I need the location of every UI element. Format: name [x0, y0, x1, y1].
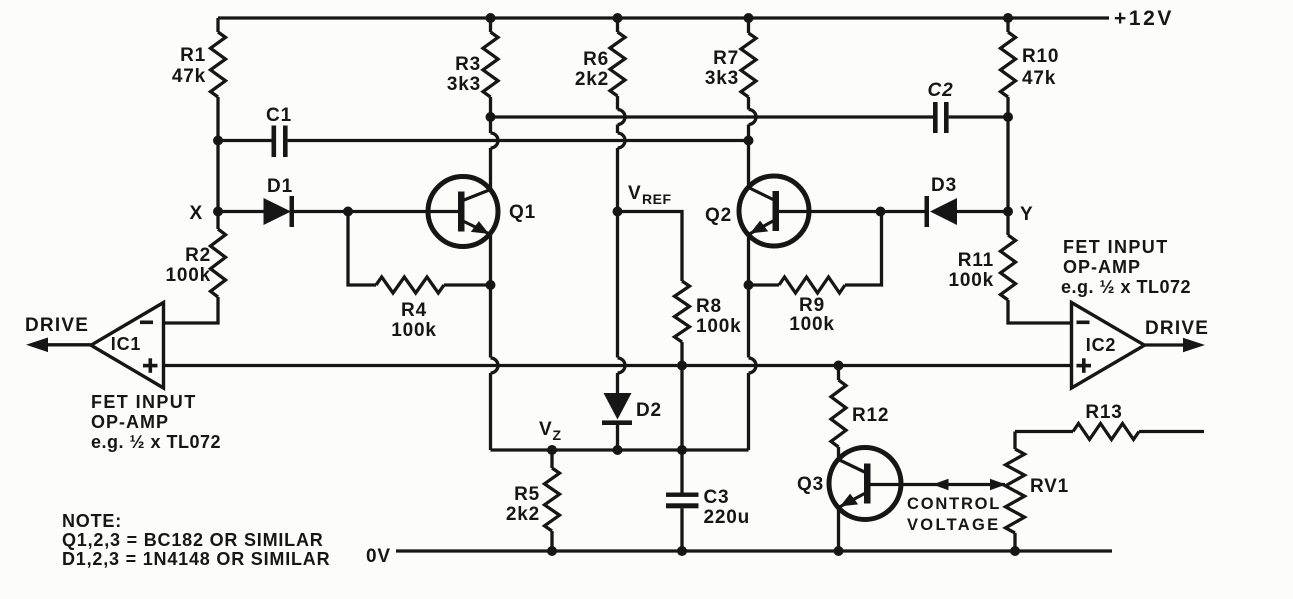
svg-text:2k2: 2k2 [506, 504, 540, 525]
wire 0V line [396, 549, 1112, 552]
wire Q1 emitter down [489, 285, 492, 358]
wire +12V top rail [218, 16, 1109, 19]
svg-text:220u: 220u [704, 507, 751, 528]
wire C2 to R10 column [949, 115, 1008, 118]
transistor Q2 circle [739, 176, 809, 246]
svg-text:Z: Z [553, 427, 562, 443]
svg-text:e.g. ½ x TL072: e.g. ½ x TL072 [91, 432, 221, 452]
svg-text:+12V: +12V [1114, 7, 1174, 30]
wire Q3 emitter to 0V [837, 508, 840, 552]
svg-text:R13: R13 [1085, 402, 1122, 423]
svg-text:e.g. ½ x TL072: e.g. ½ x TL072 [1061, 277, 1191, 297]
svg-text:RV1: RV1 [1030, 476, 1069, 497]
svg-text:R9: R9 [799, 295, 825, 316]
capacitor C3 [666, 493, 699, 497]
node 0V Q3 emitter [834, 546, 844, 556]
svg-text:DRIVE: DRIVE [1145, 318, 1209, 339]
node top rail / R7 [744, 13, 754, 23]
wire hop over C1 line [618, 133, 626, 148]
wire to C1 line node [747, 125, 750, 188]
IC2 plus symbol [1077, 364, 1092, 368]
resistor R8 [675, 281, 690, 342]
wire hop to Q1 collector [489, 148, 492, 190]
op-amp IC1 [91, 303, 164, 389]
resistor R4 [348, 212, 376, 286]
svg-text:IC2: IC2 [1086, 335, 1116, 355]
svg-text:100k: 100k [789, 314, 834, 335]
wire Q2 base [779, 210, 925, 213]
resistor R5 [550, 450, 553, 468]
node Vz R5 [547, 445, 557, 455]
svg-text:R10: R10 [1022, 46, 1059, 67]
IC1 plus symbol [143, 364, 158, 368]
resistor R6 [616, 18, 619, 32]
node Vz D2 [613, 445, 623, 455]
transistor Q1 emitter [464, 222, 491, 235]
node C1 tee [213, 136, 223, 146]
node R4 at Q1 emitter column [486, 280, 496, 290]
wire Q2 emitter down [747, 285, 750, 358]
node top rail / R10 [1003, 13, 1013, 23]
svg-text:Q1: Q1 [509, 202, 536, 223]
svg-text:CONTROL: CONTROL [907, 495, 1001, 513]
wire C3 top lead [680, 450, 683, 493]
svg-text:Q2: Q2 [705, 205, 732, 226]
svg-text:R1: R1 [180, 45, 206, 66]
wire Vref to R8 [618, 212, 683, 282]
svg-text:R3: R3 [455, 54, 481, 75]
transistor Q2 emitter [749, 221, 774, 235]
svg-text:100k: 100k [696, 316, 741, 337]
node Y [1003, 207, 1013, 217]
svg-text:C1: C1 [266, 105, 292, 126]
resistor R7 [747, 18, 750, 33]
svg-text:R4: R4 [401, 300, 427, 321]
wire R8 node to Vz rail [680, 366, 683, 451]
svg-text:R8: R8 [696, 296, 722, 317]
wire Vref down to hop [616, 212, 619, 358]
svg-text:OP-AMP: OP-AMP [91, 412, 169, 432]
svg-text:X: X [190, 203, 203, 224]
node R9 at Q2 emitter column [744, 280, 754, 290]
transistor Q1 base bar [458, 192, 465, 232]
wire Q3 base to RV1 wiper [870, 483, 1005, 486]
transistor Q1 collector [464, 190, 491, 201]
wire Q1 emitter to R4 node [489, 234, 492, 285]
svg-text:R12: R12 [852, 405, 889, 426]
svg-text:OP-AMP: OP-AMP [1063, 257, 1141, 277]
svg-text:R2: R2 [185, 245, 211, 266]
node 0V R5 [547, 546, 557, 556]
svg-text:V: V [628, 183, 641, 204]
node D1 base junction [343, 207, 353, 217]
node X [213, 207, 223, 217]
wire Vz rail [491, 448, 749, 451]
wire D1 to Q1 base [294, 210, 459, 213]
potentiometer RV1 [1013, 432, 1016, 450]
wire X to C1 [218, 139, 272, 142]
resistor R13 [1015, 430, 1073, 433]
node R8 at plus line [677, 361, 687, 371]
svg-text:V: V [539, 419, 552, 440]
svg-text:47k: 47k [172, 66, 206, 87]
svg-text:FET INPUT: FET INPUT [91, 392, 197, 412]
capacitor C1 [272, 126, 277, 158]
node 0V C3 [677, 546, 687, 556]
svg-text:Q3: Q3 [797, 474, 824, 495]
svg-text:D2: D2 [636, 400, 662, 421]
transistor Q2 base bar [773, 191, 780, 231]
wire D3 to Y [957, 210, 1008, 213]
svg-text:VOLTAGE: VOLTAGE [907, 516, 1000, 534]
wire C3 bottom lead [680, 508, 683, 551]
node C1 line at R7 column [744, 136, 754, 146]
resistor R11 [1006, 212, 1009, 236]
resistor R1 [216, 18, 219, 32]
svg-text:R5: R5 [514, 484, 540, 505]
transistor Q2 collector [749, 188, 774, 200]
svg-text:3k3: 3k3 [447, 74, 481, 95]
transistor Q3 emitter [839, 494, 865, 508]
wire plus line IC1 to IC2 [164, 364, 1072, 367]
capacitor C2 [933, 102, 938, 133]
svg-text:3k3: 3k3 [705, 68, 739, 89]
svg-text:47k: 47k [1022, 68, 1056, 89]
wire R3 bottom to C2 [491, 115, 934, 118]
wire to Vz rail [489, 373, 492, 450]
wire to Vref node [616, 148, 619, 212]
svg-text:IC1: IC1 [111, 334, 141, 354]
wire R3 column to hop [489, 111, 492, 134]
node R3 bottom line1 [486, 112, 496, 122]
transistor Q3 collector [839, 460, 865, 473]
svg-text:100k: 100k [166, 265, 211, 286]
transistor Q1 circle [428, 177, 498, 247]
svg-text:100k: 100k [949, 270, 994, 291]
transistor Q3 base bar [864, 464, 871, 504]
svg-text:R11: R11 [958, 250, 994, 271]
svg-text:2k2: 2k2 [575, 69, 609, 90]
svg-text:D1,2,3 = 1N4148 OR SIMILAR: D1,2,3 = 1N4148 OR SIMILAR [62, 549, 330, 569]
node R12 at plus line [834, 361, 844, 371]
wire D2 to Vz rail [616, 425, 619, 450]
svg-text:DRIVE: DRIVE [25, 315, 89, 336]
resistor R3 [489, 18, 492, 32]
node Q2 base R9 junction [876, 207, 886, 217]
wire to Vz rail corner [747, 373, 750, 450]
diode D1 [264, 198, 292, 225]
wire hop over line1 [618, 110, 626, 125]
wire hop over plus line [491, 358, 499, 373]
node top rail / R3 [486, 13, 496, 23]
node VREF [613, 207, 623, 217]
svg-text:REF: REF [642, 191, 672, 207]
wire Q2 emitter to R9 node [747, 234, 750, 285]
svg-text:R7: R7 [713, 48, 739, 69]
IC1 output arrow DRIVE [45, 343, 91, 346]
svg-text:100k: 100k [391, 320, 436, 341]
node 0V RV1 [1010, 546, 1020, 556]
svg-text:C3: C3 [704, 487, 730, 508]
diode D3 [925, 196, 930, 227]
wire to D2 [616, 373, 619, 393]
wire hop over plus line [618, 358, 626, 373]
diode D2 [604, 393, 632, 420]
wire X to D1 [218, 210, 264, 213]
IC2 minus symbol [1077, 321, 1090, 325]
IC1 minus symbol [140, 321, 153, 325]
resistor R10 [1006, 18, 1009, 32]
wire hop over C1 line [491, 133, 499, 148]
svg-text:FET INPUT: FET INPUT [1063, 237, 1169, 257]
svg-text:C2: C2 [928, 80, 954, 101]
svg-text:D3: D3 [931, 175, 957, 196]
svg-text:D1: D1 [267, 176, 293, 197]
wire hop over plus line [749, 358, 757, 373]
op-amp IC2 [1072, 303, 1145, 389]
resistor R12 [837, 366, 840, 381]
resistor R9 [749, 283, 780, 286]
svg-text:NOTE:: NOTE: [62, 511, 122, 531]
wiper double arrow [933, 479, 949, 490]
node C2 line at R10 column [1003, 112, 1013, 122]
svg-text:0V: 0V [366, 546, 391, 567]
wire C1 to Q2 collector column [288, 139, 749, 142]
svg-text:R6: R6 [583, 49, 609, 70]
svg-text:Y: Y [1020, 204, 1033, 225]
node top rail / R6 [613, 13, 623, 23]
svg-text:Q1,2,3 = BC182 OR SIMILAR: Q1,2,3 = BC182 OR SIMILAR [62, 530, 324, 550]
wire hop over line1 [749, 110, 757, 125]
wire between hops [616, 125, 619, 134]
resistor R2 [216, 212, 219, 230]
IC2 output arrow DRIVE [1145, 343, 1187, 346]
node Vz C3 [677, 445, 687, 455]
transistor Q3 circle [829, 448, 901, 520]
